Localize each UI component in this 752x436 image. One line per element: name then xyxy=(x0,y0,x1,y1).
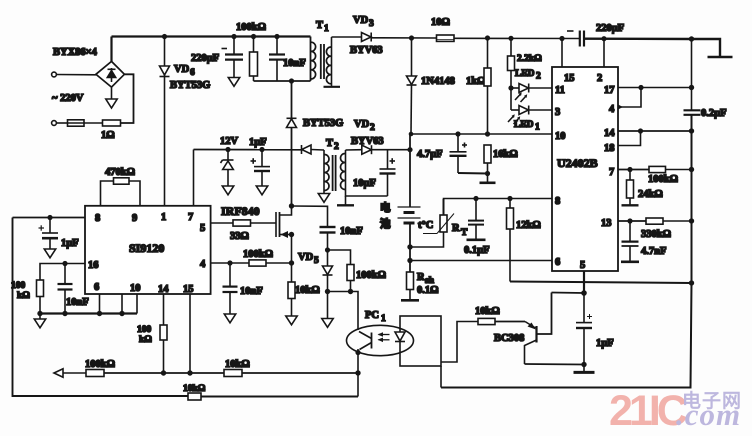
label 10ohm xyxy=(431,17,450,28)
capacitor 1uF aux xyxy=(251,150,271,187)
svg-text:10µF: 10µF xyxy=(353,178,376,189)
svg-text:SI9120: SI9120 xyxy=(129,241,164,255)
ground bar 1uF pin5 xyxy=(574,365,595,373)
capacitor 1uF pin16 xyxy=(39,218,59,250)
wire 1N4148 down to pin10 net xyxy=(410,85,413,134)
svg-text:10: 10 xyxy=(130,283,141,294)
wire pin5 to 33ohm xyxy=(211,222,233,224)
capacitor 10nF drain snubber xyxy=(320,227,336,250)
svg-text:BYV63: BYV63 xyxy=(350,45,383,56)
wire pin4 net xyxy=(211,262,249,264)
label 100k pin14 line1 xyxy=(137,325,152,335)
battery cells xyxy=(398,207,421,223)
svg-text:T: T xyxy=(326,138,333,149)
pin 5 label xyxy=(580,260,585,271)
node ground rail 10nF xyxy=(62,311,67,316)
zener diode 12V xyxy=(221,150,234,187)
wire LED1 to pin3 xyxy=(529,109,552,111)
pin 14 label xyxy=(604,128,615,139)
label 100k pin16 line1 xyxy=(11,281,26,291)
svg-text:3: 3 xyxy=(555,107,560,118)
pin 6 label xyxy=(94,282,99,293)
wire U2402B pin2 stub xyxy=(603,39,605,67)
wire 10ohm to 220uF xyxy=(454,37,580,39)
resistor 33ohm xyxy=(233,220,251,226)
resistor 100k snubber xyxy=(250,37,258,82)
capacitor 1uF pin5 xyxy=(576,293,592,365)
ground arrow 1uF aux xyxy=(256,186,267,195)
node pin17/pin4 xyxy=(638,85,643,90)
svg-text:6: 6 xyxy=(94,282,99,293)
LED LED2 xyxy=(511,84,529,103)
wire VD6 branch down to SI9120 pin 1 xyxy=(164,37,166,206)
diode 1N4148 xyxy=(407,38,417,85)
svg-text:2: 2 xyxy=(536,72,541,82)
pin 7 label xyxy=(188,212,193,223)
node 100k VD5 bottom xyxy=(348,289,353,294)
logo 21IC xyxy=(609,387,687,435)
capacitor 10nF pin16 xyxy=(58,264,73,314)
wire pin18 hook xyxy=(618,131,641,146)
logo dianziwang xyxy=(682,389,742,412)
svg-text:14: 14 xyxy=(158,284,169,295)
node rail / right vertical xyxy=(689,36,694,41)
pin 15 label xyxy=(183,284,194,295)
MOSFET IRF840 xyxy=(276,206,292,238)
svg-text:BYX86×4: BYX86×4 xyxy=(53,47,98,58)
node aux rail / zener xyxy=(225,147,230,152)
PC1 LED diode xyxy=(395,332,405,342)
label 100k pin16 line2 xyxy=(17,291,30,301)
wire 330k to right vertical xyxy=(663,220,692,222)
svg-text:LED: LED xyxy=(514,120,534,130)
svg-text:13: 13 xyxy=(601,218,612,229)
thermistor RT xyxy=(410,199,454,247)
pin 18 label xyxy=(604,143,615,154)
resistor 16k xyxy=(484,145,491,174)
svg-text:BYT53G: BYT53G xyxy=(170,80,210,91)
wire 220uF to right rail end xyxy=(584,39,720,57)
node pin10 net / 16k xyxy=(485,131,490,136)
label LED1 xyxy=(514,120,540,133)
wire VD2 to battery node xyxy=(372,149,411,151)
capacitor 10uF xyxy=(380,150,396,196)
svg-text:10Ω: 10Ω xyxy=(431,17,450,28)
ground bar 0.1uF xyxy=(467,239,486,242)
node pin7/24k xyxy=(627,167,632,172)
node 16k ground xyxy=(485,171,490,176)
resistor 12k xyxy=(507,199,514,282)
label BYV63 xyxy=(350,45,383,56)
wire pin17 to right vertical xyxy=(618,87,692,89)
ground bar 16k xyxy=(480,174,496,183)
wire pin6 net xyxy=(410,260,552,262)
svg-text:4: 4 xyxy=(200,259,206,270)
ground arrow below 220uF xyxy=(228,78,239,87)
svg-text:R: R xyxy=(452,223,460,234)
wire pin15 stub down xyxy=(189,294,191,373)
label 1uF pin5 xyxy=(596,338,614,349)
node aux rail / 1uF xyxy=(259,147,264,152)
wire terminal to bridge xyxy=(57,74,97,76)
svg-text:10kΩ: 10kΩ xyxy=(475,306,500,317)
wire pin10b stub xyxy=(136,294,138,314)
pin 8 label xyxy=(555,196,560,207)
wire pin7 stub to aux rail xyxy=(193,150,195,206)
resistor 330k xyxy=(646,218,663,224)
svg-text:1µF: 1µF xyxy=(61,238,79,249)
ground arrow 10k source xyxy=(286,316,297,325)
svg-text:4.7µF: 4.7µF xyxy=(417,149,443,160)
capacitor 4.7nF xyxy=(622,221,639,262)
label VD2 xyxy=(354,119,375,133)
wire pin8 net xyxy=(444,198,553,201)
node rail/100k snubber xyxy=(251,34,256,39)
wire 100k pin7 to right vertical xyxy=(666,169,692,171)
node feedback / pin15 xyxy=(187,370,192,375)
label LED2 xyxy=(515,69,541,82)
node pin5 xyxy=(581,290,587,296)
transformer T1 primary xyxy=(311,37,316,82)
ground bar top right xyxy=(708,56,733,59)
pin 6 label xyxy=(555,257,560,268)
label VD6 xyxy=(174,64,195,78)
svg-text:VD: VD xyxy=(354,119,370,130)
node pin7 net/right vertical xyxy=(689,167,694,172)
wire pin16 ground rail xyxy=(40,312,137,314)
node rail/10nF snubber xyxy=(274,34,279,39)
AC input terminal (neutral) xyxy=(52,121,57,126)
svg-text:1: 1 xyxy=(161,212,166,223)
IC SI9120 xyxy=(85,206,211,294)
ground bar 4.7nF xyxy=(621,260,639,263)
ground arrow 1uF pin16 xyxy=(44,249,55,258)
PC1 LED box xyxy=(400,316,441,366)
svg-text:2.2kΩ: 2.2kΩ xyxy=(517,54,542,64)
svg-text:8: 8 xyxy=(95,213,100,224)
resistor Rsh xyxy=(407,272,414,300)
wire snubber bottom rail xyxy=(254,80,311,82)
optocoupler PC1 body xyxy=(347,325,414,355)
label PC1 xyxy=(365,310,386,324)
svg-text:16: 16 xyxy=(88,260,99,271)
svg-text:0.2µF: 0.2µF xyxy=(701,108,727,119)
capacitor 220uF output (series) xyxy=(567,31,584,47)
ground arrow T2 primary xyxy=(318,191,329,203)
svg-text:33Ω: 33Ω xyxy=(230,231,249,242)
svg-text:7: 7 xyxy=(609,167,614,178)
pin 15 label xyxy=(564,73,575,84)
resistor 1k xyxy=(484,38,491,134)
svg-text:池: 池 xyxy=(380,217,391,230)
pin 1 label xyxy=(161,212,166,223)
ground arrow 10nF pin4 xyxy=(224,314,235,323)
svg-text:100kΩ: 100kΩ xyxy=(236,22,266,33)
node drain xyxy=(289,203,294,208)
wire right vertical lower xyxy=(441,115,692,388)
diode VD6 BYT53G xyxy=(160,66,170,77)
label 4.7uF xyxy=(417,149,443,160)
wire PC1 box to bottom loop xyxy=(440,366,442,388)
node VD5 top xyxy=(325,247,330,252)
node source xyxy=(289,232,294,237)
wire U2402B pin15 stub xyxy=(561,39,563,68)
pin 9 label xyxy=(132,213,137,224)
wire LED2 to pin11 xyxy=(529,87,552,89)
resistor 10k bottom xyxy=(188,393,201,400)
svg-text:10kΩ: 10kΩ xyxy=(183,384,206,394)
svg-text:15: 15 xyxy=(564,73,575,84)
label 10k feedback xyxy=(225,359,250,370)
wire PC1 LED to base resistor xyxy=(441,322,478,363)
wire BC308 emitter to 1uF node xyxy=(525,363,584,366)
diode VD3 BYV63 xyxy=(362,33,372,42)
node feedback / pin14 xyxy=(161,370,166,375)
wire bottom loop to PC1 vertical xyxy=(201,396,358,398)
wire pin14 to right vertical xyxy=(618,130,692,132)
capacitor 220uF input xyxy=(222,37,244,78)
pin 10 label xyxy=(555,131,566,142)
wire T2 secondary bottom to 10uF xyxy=(346,191,388,197)
node 330k/right vertical xyxy=(689,218,694,223)
resistor 24k xyxy=(627,170,634,206)
label 220uF output xyxy=(596,23,624,34)
svg-text:5: 5 xyxy=(314,256,319,266)
label 10nF snubber xyxy=(283,58,306,69)
svg-text:10kΩ: 10kΩ xyxy=(225,359,250,370)
wire pin16 xyxy=(40,264,85,281)
svg-text:IRF840: IRF840 xyxy=(221,204,260,218)
pin 13 label xyxy=(601,218,612,229)
label 100k snubber xyxy=(236,22,266,33)
node pin8 / 0.1uF xyxy=(473,196,478,201)
label BYT53G xyxy=(170,80,210,91)
resistor 100k pin7 xyxy=(649,166,666,172)
svg-text:1µF: 1µF xyxy=(249,137,267,148)
label 330k xyxy=(641,229,671,240)
wire pin4 hook xyxy=(618,88,641,110)
wire SI9120 aux pin left xyxy=(13,217,86,219)
pin 8 label xyxy=(95,213,100,224)
svg-text:kΩ: kΩ xyxy=(139,335,152,345)
svg-text:5: 5 xyxy=(200,223,205,234)
label 2.2k xyxy=(517,54,542,64)
wire drain to snubber 10nF xyxy=(292,206,328,227)
label 10k source xyxy=(295,285,320,296)
svg-text:14: 14 xyxy=(604,128,615,139)
svg-text:18: 18 xyxy=(604,143,615,154)
bridge rectifier BYX86x4 xyxy=(96,61,125,87)
svg-text:电: 电 xyxy=(380,201,391,214)
transformer T1 secondary xyxy=(326,37,331,84)
pin 11 label xyxy=(555,85,565,96)
node rail / 1k branch xyxy=(485,35,490,40)
svg-text:100kΩ: 100kΩ xyxy=(243,249,273,260)
svg-text:2: 2 xyxy=(597,73,602,84)
PC1 light arrows xyxy=(378,332,390,342)
svg-text:1: 1 xyxy=(324,24,329,34)
transformer T2 core xyxy=(333,155,336,191)
label 0.2uF xyxy=(701,108,727,119)
svg-text:LED: LED xyxy=(515,69,535,79)
ground arrow zener xyxy=(222,186,233,195)
svg-text:VD: VD xyxy=(353,15,369,26)
svg-text:BC308: BC308 xyxy=(494,333,524,344)
label 10uF xyxy=(353,178,376,189)
svg-text:100: 100 xyxy=(11,281,26,291)
node pin4 / 10nF xyxy=(227,260,232,265)
node rail/VD6 xyxy=(162,34,167,39)
label 1N4148 xyxy=(421,76,455,87)
diode aux rectifier xyxy=(302,145,325,154)
wire 12k to right vertical bottom rail xyxy=(510,282,692,284)
svg-text:24kΩ: 24kΩ xyxy=(638,189,663,200)
capacitor 4.7uF xyxy=(450,134,468,173)
node rail / 2.2k branch xyxy=(508,36,513,41)
svg-text:100kΩ: 100kΩ xyxy=(648,174,678,185)
wire 4.7uF/16k ground rail xyxy=(458,172,488,175)
svg-text:100: 100 xyxy=(137,325,152,335)
label 10k bottom xyxy=(183,384,206,394)
svg-text:220µF: 220µF xyxy=(191,53,219,64)
resistor 2.2k xyxy=(508,38,515,88)
svg-text:2: 2 xyxy=(334,142,339,152)
resistor 100k pin4 xyxy=(249,260,266,266)
resistor 1ohm xyxy=(103,120,121,126)
pin 7 label xyxy=(609,167,614,178)
svg-text:10kΩ: 10kΩ xyxy=(295,285,320,296)
pin 17 label xyxy=(604,85,615,96)
svg-text:8: 8 xyxy=(555,196,560,207)
wire 33ohm to gate xyxy=(251,222,277,224)
wire 100k pin4 to source xyxy=(266,262,292,264)
svg-text:10: 10 xyxy=(555,131,566,142)
label 0.1ohm Rsh xyxy=(417,285,439,296)
AC input terminal (line) xyxy=(52,72,57,77)
ground arrow below bridge xyxy=(106,87,117,108)
label 220uF xyxy=(191,53,219,64)
pin 14 label xyxy=(158,284,169,295)
logo .com xyxy=(676,397,741,432)
resistor 10ohm xyxy=(437,35,455,41)
node right vertical / bottom rail xyxy=(689,280,694,285)
node ground rail 100k xyxy=(37,311,42,316)
label battery dian xyxy=(380,201,391,214)
node aux pin / 1uF xyxy=(47,215,52,220)
label 24k xyxy=(638,189,663,200)
label 1uF aux xyxy=(249,137,267,148)
wire bridge top to rail xyxy=(110,37,112,62)
label VD3 xyxy=(353,15,374,29)
svg-text:12V: 12V xyxy=(220,136,239,147)
svg-text:t°C: t°C xyxy=(418,220,433,231)
wire pin6 stub xyxy=(99,294,101,314)
pin 2 label xyxy=(597,73,602,84)
ground bar below T1 secondary xyxy=(324,84,341,87)
wire VD5 node to PC1 xyxy=(328,292,359,331)
label 100k pin4 xyxy=(243,249,273,260)
wire T1 secondary to VD3 xyxy=(332,36,362,38)
svg-text:3: 3 xyxy=(369,19,374,29)
svg-text:0.1µF: 0.1µF xyxy=(464,245,490,256)
label 0.1uF xyxy=(464,245,490,256)
label VD5 xyxy=(298,252,319,266)
wire battery column upper xyxy=(409,134,411,207)
wire 1ohm to bridge right corner xyxy=(121,74,134,123)
wire right vertical upper xyxy=(691,39,693,110)
node pin8 / 12k xyxy=(507,196,512,201)
label 470k xyxy=(105,167,135,178)
svg-text:11: 11 xyxy=(555,85,565,96)
svg-text:7: 7 xyxy=(188,212,193,223)
node ground rail pin10a xyxy=(119,311,124,316)
label BYX86x4 xyxy=(53,47,98,58)
node rail / pin2 xyxy=(601,36,606,41)
svg-text:kΩ: kΩ xyxy=(17,291,30,301)
svg-text:BYV63: BYV63 xyxy=(351,136,384,147)
pin 4 label xyxy=(609,104,615,115)
wire fuse to R 1ohm xyxy=(84,122,103,124)
resistor 100k VD5 xyxy=(347,265,354,292)
label tC xyxy=(418,220,433,231)
label RT xyxy=(452,223,468,238)
wire pin10a stub xyxy=(121,294,123,314)
ground arrow left rail xyxy=(34,314,45,328)
resistor 100k feedback xyxy=(86,370,104,377)
wire battery column lower xyxy=(409,223,411,272)
wire U2402B pin10 net xyxy=(409,132,552,137)
svg-text:1N4148: 1N4148 xyxy=(421,76,455,87)
PC1 phototransistor xyxy=(358,332,372,353)
label ~220V xyxy=(52,93,84,104)
label T2 xyxy=(326,138,339,152)
svg-text:~ 220V: ~ 220V xyxy=(52,93,84,104)
svg-text:T: T xyxy=(316,20,323,31)
diode VD5 xyxy=(323,250,333,292)
arrow off-page feedback xyxy=(54,369,63,377)
svg-text:1µF: 1µF xyxy=(596,338,614,349)
label 12V xyxy=(220,136,239,147)
resistor 10k base xyxy=(478,318,495,324)
label battery chi xyxy=(380,217,391,230)
node battery / pin6 net xyxy=(407,258,412,263)
svg-text:.com: .com xyxy=(676,397,741,432)
wire feedback net xyxy=(104,372,224,374)
label 100k feedback xyxy=(85,359,115,370)
label Rsh xyxy=(417,272,435,286)
pin 10 label xyxy=(130,283,141,294)
svg-text:6: 6 xyxy=(190,68,195,78)
svg-text:10nF: 10nF xyxy=(66,297,89,308)
transistor BC308 xyxy=(525,293,552,365)
resistor 10k feedback xyxy=(224,370,242,377)
wire VD5 node to 100k xyxy=(328,250,351,265)
pin 5 label xyxy=(200,223,205,234)
label 10nF pin4 xyxy=(240,286,263,297)
node rail / U2402B pin15 stub xyxy=(559,36,564,41)
svg-text:100kΩ: 100kΩ xyxy=(85,359,115,370)
label 33ohm xyxy=(230,231,249,242)
label BYV63 aux xyxy=(351,136,384,147)
label 1uF pin16 xyxy=(61,238,79,249)
label 100k VD5 xyxy=(356,270,386,281)
pin 3 label xyxy=(555,107,560,118)
label BC308 xyxy=(494,333,524,344)
svg-text:470kΩ: 470kΩ xyxy=(105,167,135,178)
node rail/220uF xyxy=(231,34,236,39)
resistor 470k xyxy=(101,178,141,206)
ground bar T2 secondary xyxy=(337,196,354,205)
